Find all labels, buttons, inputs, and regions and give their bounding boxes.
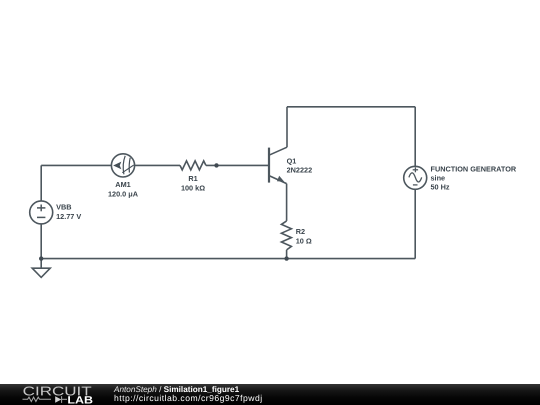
svg-text:100 kΩ: 100 kΩ [181, 183, 205, 192]
svg-text:FUNCTION GENERATOR: FUNCTION GENERATOR [431, 165, 517, 174]
svg-text:LAB: LAB [67, 395, 93, 405]
svg-text:R1: R1 [188, 174, 197, 183]
svg-text:10 Ω: 10 Ω [296, 237, 312, 246]
svg-text:120.0 μA: 120.0 μA [108, 190, 139, 199]
svg-text:VBB: VBB [56, 202, 71, 211]
svg-text:12.77 V: 12.77 V [56, 212, 81, 221]
svg-text:Q1: Q1 [287, 156, 297, 165]
svg-text:2N2222: 2N2222 [287, 166, 313, 175]
svg-text:AM1: AM1 [115, 180, 130, 189]
svg-text:50 Hz: 50 Hz [431, 183, 450, 192]
svg-text:sine: sine [431, 174, 446, 183]
svg-text:R2: R2 [296, 227, 305, 236]
